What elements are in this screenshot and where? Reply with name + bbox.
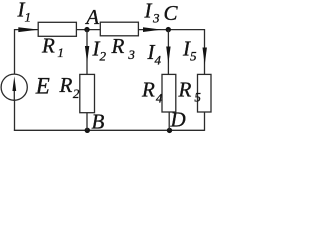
current arrow I4 [166, 47, 170, 64]
wire R5 to bottom-right corner [204, 112, 206, 131]
source E circle [1, 74, 27, 100]
node D [167, 128, 172, 133]
wire top-left segment [15, 29, 39, 31]
svg-text:I4: I4 [147, 40, 162, 67]
node B [85, 128, 90, 133]
wire left top (corner to source) [14, 29, 16, 74]
resistor R5 [198, 74, 212, 112]
resistor R4 [162, 74, 176, 112]
svg-text:A: A [84, 5, 99, 29]
source E internal stem [13, 90, 15, 100]
svg-text:R4: R4 [141, 78, 163, 106]
svg-text:C: C [164, 1, 179, 25]
wire R3 to C to top-right corner [138, 29, 204, 31]
current arrow I1 [18, 27, 38, 32]
svg-text:R1: R1 [41, 34, 64, 61]
node A [84, 27, 89, 32]
wire A down to R2 [86, 30, 88, 75]
svg-text:R3: R3 [111, 34, 136, 62]
resistor R3 [100, 22, 138, 36]
wire top-right corner down to R5 [204, 29, 206, 74]
resistor R1 [38, 22, 76, 36]
source E arrow [12, 76, 16, 91]
wire R2 to B [86, 113, 88, 131]
wire bottom [14, 129, 205, 131]
wire R1 to R3 [76, 29, 100, 31]
resistor R2 [80, 74, 95, 112]
svg-text:R2: R2 [59, 73, 80, 101]
node C [166, 27, 171, 32]
current arrow I2 [85, 46, 89, 62]
svg-text:I1: I1 [17, 0, 32, 25]
svg-text:I3: I3 [144, 0, 161, 25]
current arrow I5 [203, 48, 207, 65]
svg-text:I2: I2 [92, 37, 107, 64]
wire C down to R4 [167, 30, 169, 75]
current arrow I3 [143, 27, 162, 32]
wire R4 to D [168, 112, 170, 130]
wire left bottom (source to corner) [14, 100, 16, 131]
svg-text:I5: I5 [182, 36, 197, 63]
svg-text:E: E [35, 73, 50, 98]
